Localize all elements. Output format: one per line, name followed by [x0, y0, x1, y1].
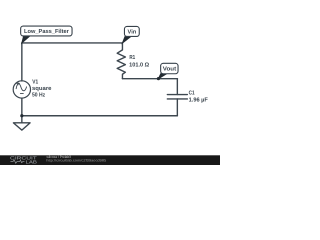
- capacitor C1: [167, 95, 187, 99]
- junction node at ground: [20, 114, 23, 117]
- svg-text:V1: V1: [32, 80, 39, 86]
- svg-text:101.0 Ω: 101.0 Ω: [129, 61, 149, 68]
- svg-text:50 Hz: 50 Hz: [32, 91, 45, 98]
- svg-text:LAB: LAB: [25, 159, 37, 164]
- svg-text:Vin: Vin: [128, 29, 137, 36]
- junction node at Vout: [157, 77, 160, 80]
- wire capacitor top stub: [176, 79, 178, 95]
- wire left vertical to V1: [21, 43, 23, 81]
- flag Vout: [158, 63, 178, 78]
- wire V1 bottom to ground node: [21, 98, 23, 116]
- voltage source V1: [13, 81, 30, 98]
- watermark bar: [0, 155, 220, 165]
- svg-text:R1: R1: [129, 55, 136, 61]
- label R1 value: [129, 55, 149, 69]
- ground: [13, 116, 30, 130]
- flag Vin: [122, 26, 139, 43]
- svg-text:1.96 µF: 1.96 µF: [189, 97, 209, 104]
- svg-text:Low_Pass_Filter: Low_Pass_Filter: [24, 28, 70, 35]
- watermark text: [46, 155, 106, 162]
- wire bottom horizontal: [22, 115, 177, 117]
- svg-text:C1: C1: [189, 90, 196, 97]
- label C1 value: [189, 90, 209, 104]
- wire R1 bottom horizontal: [122, 78, 177, 80]
- svg-text:Vout: Vout: [163, 67, 176, 73]
- label V1 value: [32, 80, 52, 99]
- circuitlab logo: [10, 156, 37, 165]
- svg-text:http://circuitlab.com/c2f39aec: http://circuitlab.com/c2f39aecd985: [46, 158, 106, 162]
- flag Low_Pass_Filter: [21, 26, 72, 43]
- resistor R1: [117, 43, 125, 79]
- wire top horizontal: [22, 42, 123, 44]
- svg-text:square: square: [32, 86, 52, 92]
- wire capacitor bottom vertical: [176, 99, 178, 116]
